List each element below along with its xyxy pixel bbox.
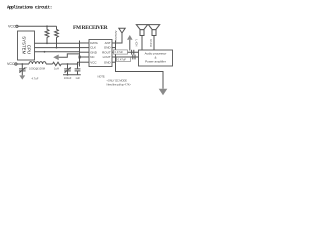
svg-text:Applications circuit:: Applications circuit: [7,5,52,10]
svg-text:SYSTEM: SYSTEM [22,36,27,54]
svg-text:Need the pull-up 4.7K>: Need the pull-up 4.7K> [107,82,132,86]
node dot C1 junction [21,63,23,65]
connector bar (left of chip) [79,41,81,67]
wire GND row [35,51,80,53]
audio processor box U3 [139,50,173,66]
node dot on GND wire [44,51,46,53]
node dot C6 / corner [77,63,79,65]
wire rail to chip VCC [61,62,79,64]
node junction on VCC rail [46,25,48,27]
svg-text:VCC: VCC [7,62,15,66]
ground arrow (down) [159,89,168,96]
wire LOUT [116,56,139,58]
NC pin x-mark [78,56,80,58]
wire left speaker [141,36,143,51]
connector bar (right of chip) [115,41,117,68]
resistor R2 (pull-up on CLK) [55,26,59,47]
ground (bottom-left) [19,75,25,79]
svg-text:GND: GND [90,50,98,54]
capacitor C1 (electrolytic to gnd) [19,64,28,75]
capacitor C3 plates [132,50,134,55]
svg-text:GND: GND [104,46,112,50]
svg-text:VCC: VCC [8,25,16,29]
svg-text:ROUT: ROUT [102,50,111,54]
wire VCC top rail [18,25,57,27]
svg-text:1uF: 1uF [75,76,80,80]
svg-text:1uH: 1uH [54,66,59,70]
svg-text:FM RECEIVER: FM RECEIVER [73,25,108,31]
svg-text:Power amplifier: Power amplifier [145,59,166,63]
svg-text:4.7uF: 4.7uF [32,76,39,80]
wire rail mid [46,63,53,65]
resistor R1 (pull-up on DATA) [45,26,49,43]
node dot gnd line [67,74,69,76]
wire DATA [35,42,80,44]
svg-text:LOUT: LOUT [103,55,111,59]
node dot R2/CLK [56,47,58,49]
node dot R1/DATA [46,42,48,44]
svg-text:CPU: CPU [27,45,32,54]
wire ANT to antenna [116,33,123,43]
speaker SP1 (left) [136,25,147,36]
note text [98,75,132,87]
svg-text:L-CH: L-CH [134,39,138,46]
speaker SP2 (right) [148,25,159,36]
svg-text:NOTE:: NOTE: [98,75,106,79]
wire right speaker [153,36,155,51]
wire ROUT [116,51,139,53]
background [0,0,180,102]
ground run from connector to ground arrow [116,67,164,89]
svg-text:Antenna: Antenna [114,31,118,43]
svg-text:100Ω@100M: 100Ω@100M [29,66,46,70]
whip antenna arrow (up) [127,35,133,51]
svg-text:<ONLY I2C MODE: <ONLY I2C MODE [107,78,128,82]
capacitor C5 100uF [64,64,72,75]
capacitor C6 1uF [75,64,81,75]
svg-text:0.47uF: 0.47uF [115,50,124,54]
svg-text:0.47uF: 0.47uF [118,58,127,62]
inductor L1 [53,62,62,65]
svg-text:R-CH: R-CH [149,39,153,47]
svg-text:GND: GND [104,60,112,64]
VCC terminal (top-left) [8,25,18,29]
FM receiver chip U1 [89,40,112,67]
VCC terminal (bottom-left) [7,62,17,66]
capacitor C4 value box 0.47uF [117,57,131,61]
system cpu box U2 [18,31,35,60]
pin stubs right [112,43,116,62]
antenna symbol [119,28,125,33]
capacitor C3 value box 0.47uF [114,50,128,54]
svg-text:DATA: DATA [90,41,98,45]
svg-text:CLK: CLK [90,46,96,50]
gnd continuation arrow (left) [53,54,79,60]
svg-text:100uF: 100uF [64,76,72,80]
svg-text:VCC: VCC [90,60,97,64]
wire VCC bottom rail [17,63,29,65]
svg-text:ANT: ANT [105,41,111,45]
node dot C5 [67,63,69,65]
capacitor C4 plates [133,55,135,60]
pin stubs left [80,43,90,62]
ground wire bottom caps [63,74,81,76]
wire CLK [35,47,80,49]
ferrite bead FB1 100ohm@100M [29,62,46,64]
